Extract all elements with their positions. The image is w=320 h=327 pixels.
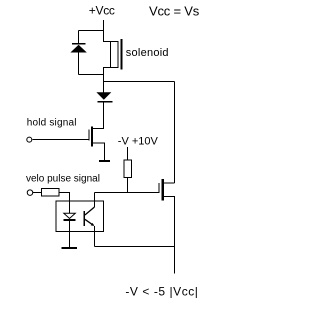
wire Q2 drain <box>164 182 174 184</box>
LED D3 cathode bar <box>63 219 75 221</box>
wire +10V stub to resistor R2 <box>127 147 129 160</box>
resistor R1 <box>42 189 59 196</box>
transistor Q1 channel bar <box>91 126 93 146</box>
transistor Q2 channel bar <box>162 179 165 201</box>
phototransistor Q3 body bar <box>84 211 85 226</box>
terminal velo input circle <box>27 190 33 196</box>
wire branch to right rail <box>104 81 175 83</box>
wire D2 cathode down to Q1 drain <box>93 103 103 129</box>
phototransistor Q3 collector diagonal <box>85 207 95 215</box>
svg-text:velo pulse signal: velo pulse signal <box>26 173 100 184</box>
diode D2 cathode bar <box>98 101 113 103</box>
svg-text:-V +10V: -V +10V <box>118 136 159 148</box>
svg-text:-V < -5 |Vcc|: -V < -5 |Vcc| <box>125 284 198 298</box>
wire R1 to LED anode <box>59 193 70 214</box>
svg-text:Vcc = Vs: Vcc = Vs <box>149 3 200 18</box>
wire Q3 collector riser <box>94 193 96 208</box>
wire R2 to gate line <box>127 178 129 193</box>
wire gate line to Q2 <box>95 192 159 194</box>
wire Q1 source to ground bar <box>93 143 104 160</box>
solenoid L1 core bar <box>120 39 122 69</box>
resistor R2 <box>124 160 132 178</box>
wire hold gate lead <box>32 139 88 141</box>
svg-text:solenoid: solenoid <box>126 47 169 59</box>
wire Q3 emitter riser <box>94 226 96 247</box>
wire top branch to diode D1 <box>79 30 104 32</box>
wire +Vcc lead <box>103 20 105 31</box>
optocoupler U1 box <box>56 201 103 232</box>
ground bar (LED cathode) <box>62 247 78 249</box>
diode D2 triangle (pointing down) <box>96 92 111 99</box>
wire emitter to -V rail <box>95 246 175 248</box>
transistor Q1 gate bar <box>89 130 90 141</box>
diode D1 triangle (pointing up) <box>70 45 86 53</box>
wire D1 bottom vertical <box>78 53 80 75</box>
terminal hold input circle <box>27 137 32 142</box>
wire right rail down to Q2 drain <box>174 82 176 184</box>
ground bar (Q1 source) <box>99 160 110 162</box>
wire solenoid bottom step <box>104 68 111 94</box>
diode D1 cathode bar <box>72 43 86 45</box>
wire D1 anode side vertical <box>78 31 80 44</box>
wire LED cathode down <box>69 221 71 247</box>
LED D3 triangle (open, pointing down) <box>64 213 76 218</box>
wire velo input to R1 <box>33 192 41 194</box>
wire Q2 source down to -V <box>164 197 174 274</box>
svg-text:hold signal: hold signal <box>27 118 77 129</box>
phototransistor Q3 emitter diagonal with arrow <box>85 219 94 225</box>
wire main vertical from +Vcc node <box>104 31 111 42</box>
solenoid L1 coil rectangle <box>111 42 119 68</box>
wire D1 return to main node <box>79 74 104 76</box>
svg-text:+Vcc: +Vcc <box>89 3 115 17</box>
transistor Q2 gate bar <box>159 183 160 193</box>
